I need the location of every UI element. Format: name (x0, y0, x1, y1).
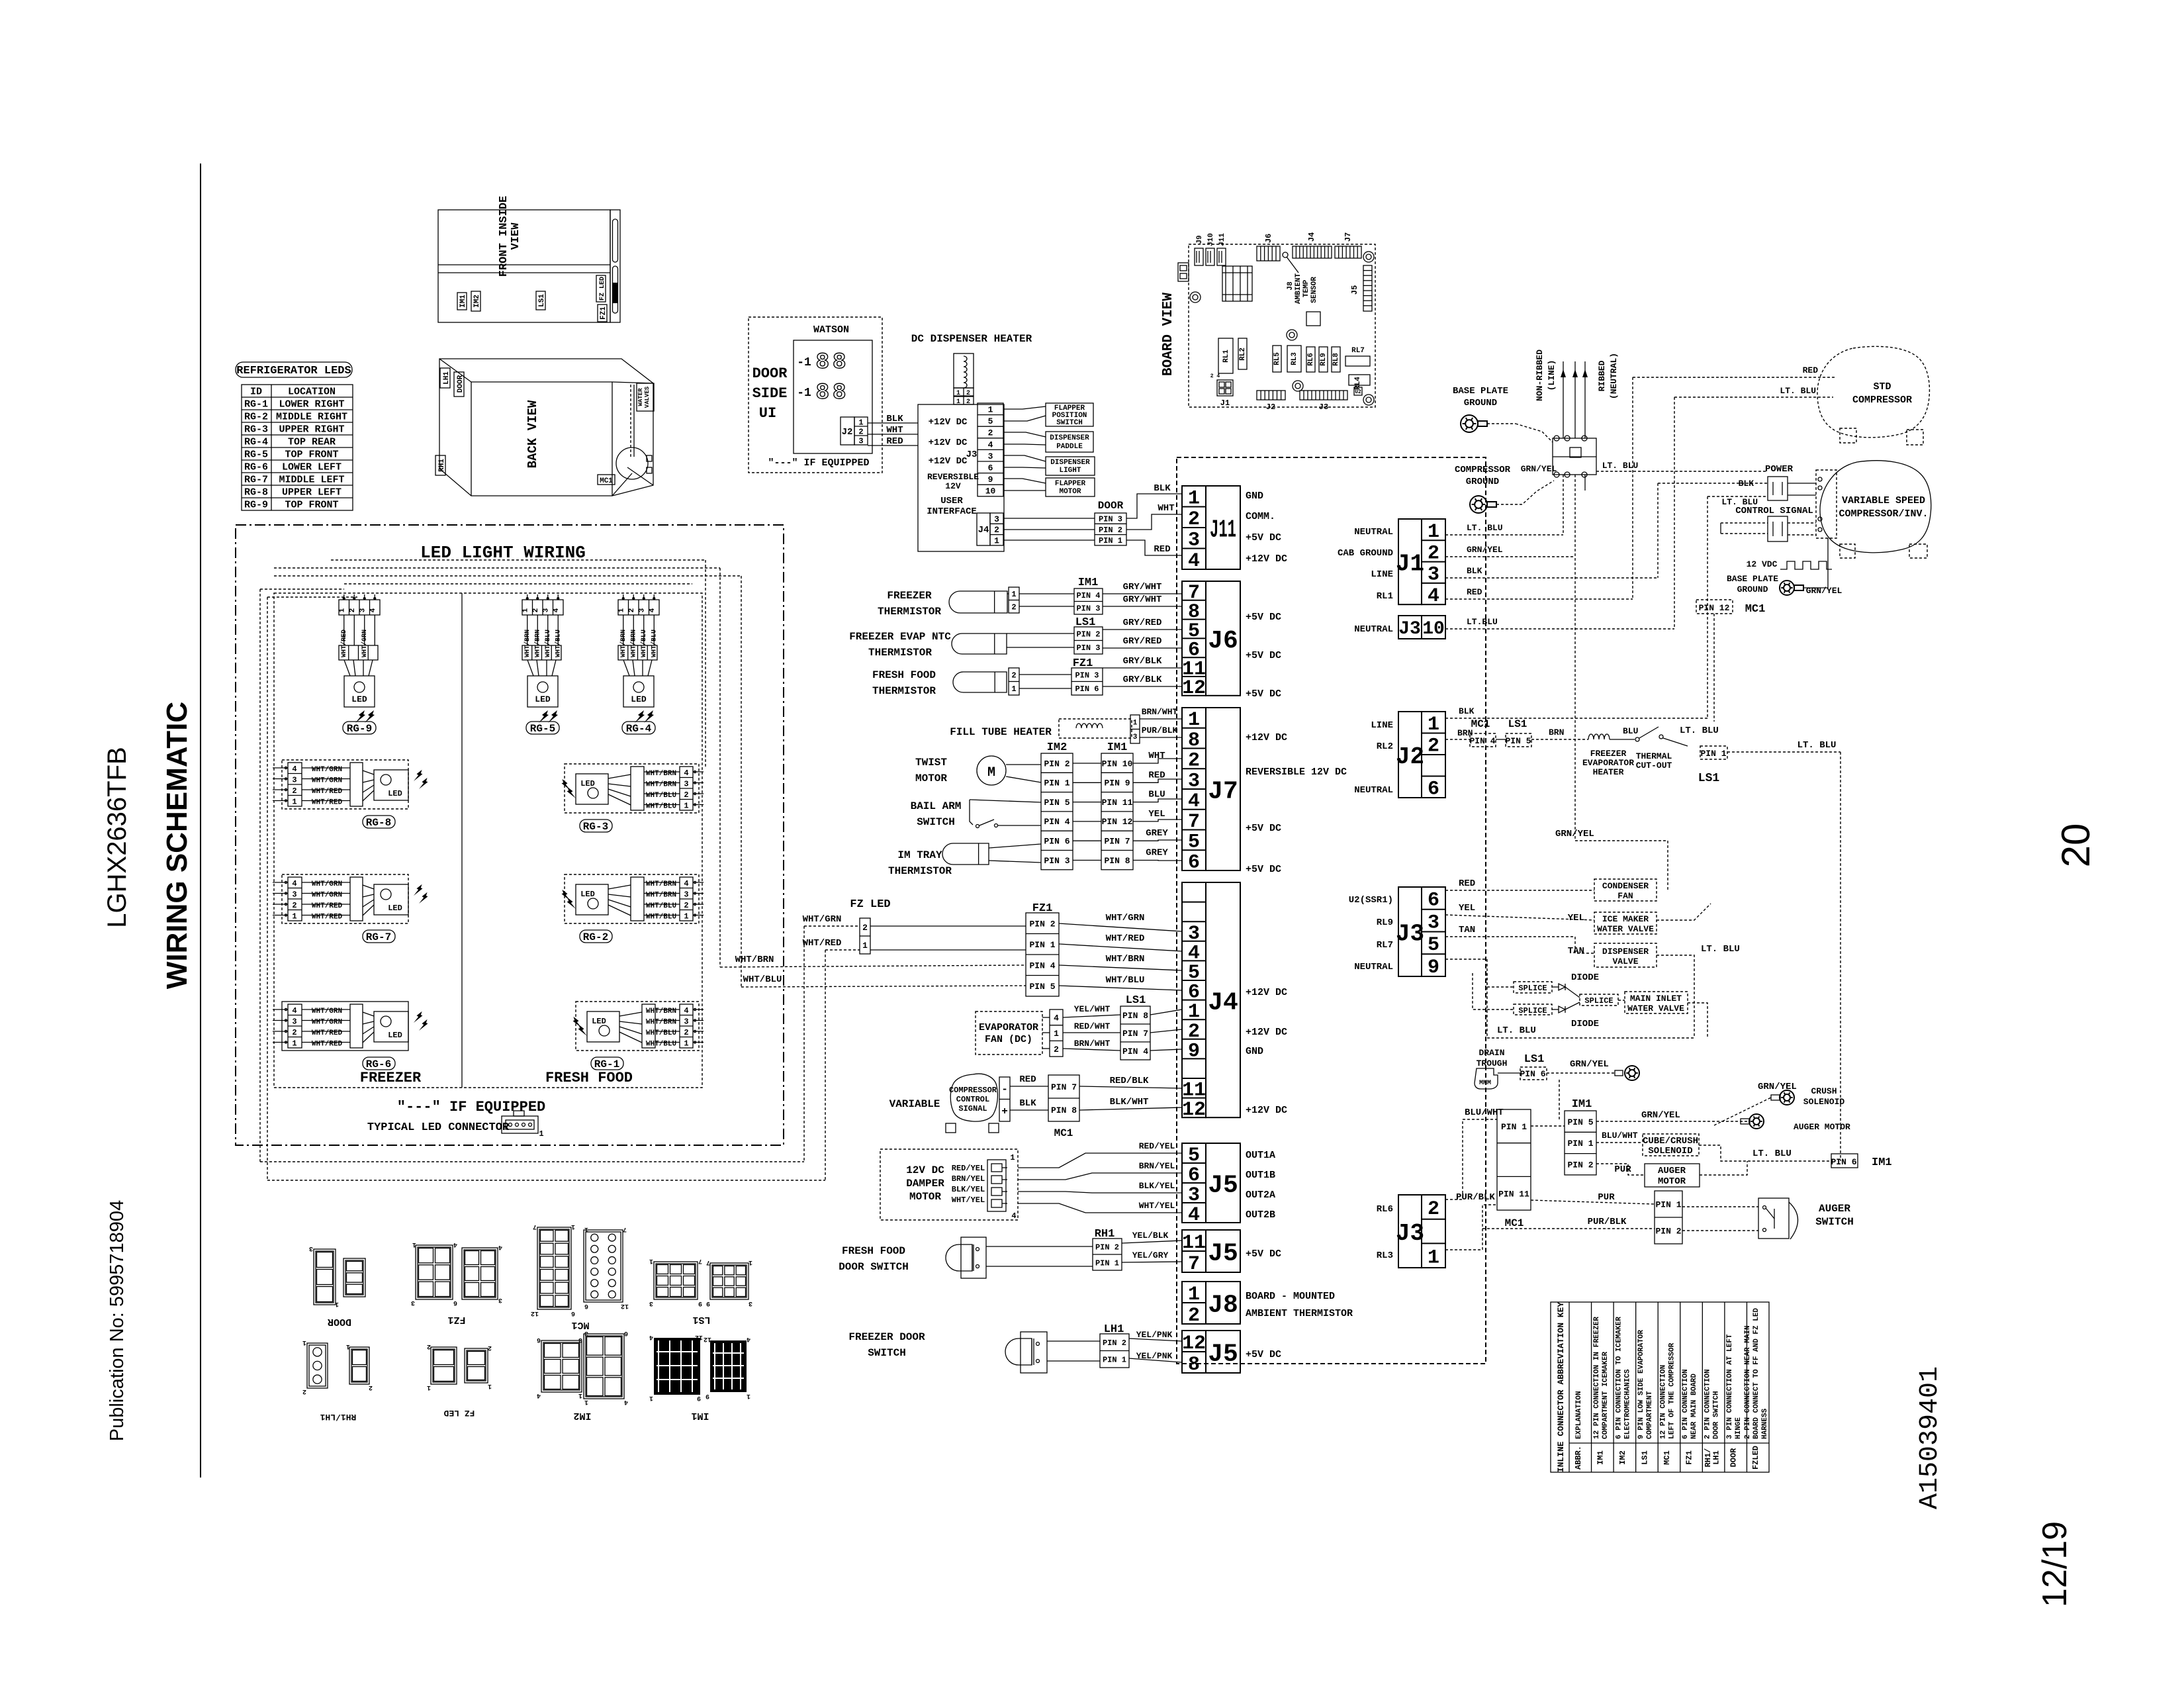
svg-text:8: 8 (1188, 1354, 1200, 1376)
PCB relay RL8 (1332, 347, 1340, 372)
svg-text:GRN/YEL: GRN/YEL (1758, 1082, 1797, 1092)
svg-text:PIN 3: PIN 3 (1044, 856, 1069, 866)
svg-text:YEL/BLK: YEL/BLK (1132, 1231, 1169, 1241)
svg-text:MOTOR: MOTOR (909, 1191, 941, 1203)
svg-text:TYPICAL LED CONNECTOR: TYPICAL LED CONNECTOR (367, 1121, 510, 1134)
svg-text:GRN/YEL: GRN/YEL (1806, 586, 1843, 596)
svg-text:4: 4 (1188, 550, 1200, 573)
PCB connector J2 (1257, 391, 1285, 400)
svg-text:PIN 11: PIN 11 (1498, 1189, 1529, 1199)
svg-text:RG-4: RG-4 (244, 437, 268, 448)
svg-text:-1: -1 (797, 387, 811, 400)
dispenser heater resistor (954, 353, 974, 388)
svg-text:GRN/YEL: GRN/YEL (1570, 1059, 1609, 1070)
svg-text:6: 6 (571, 1309, 575, 1317)
svg-text:FREEZER EVAP NTC: FREEZER EVAP NTC (849, 631, 951, 643)
label IM2 (471, 291, 480, 311)
svg-text:3: 3 (994, 514, 999, 524)
svg-text:DIODE: DIODE (1571, 1019, 1599, 1029)
svg-text:RL3: RL3 (1291, 352, 1298, 365)
svg-text:TOP FRONT: TOP FRONT (285, 449, 338, 461)
svg-text:WHT/YEL: WHT/YEL (952, 1196, 985, 1205)
svg-text:DC DISPENSER HEATER: DC DISPENSER HEATER (911, 333, 1032, 345)
svg-text:6: 6 (537, 1336, 541, 1343)
label FZ LED (596, 275, 606, 302)
svg-text:RG-4: RG-4 (626, 723, 652, 735)
connector J2 (1398, 712, 1422, 798)
PCB ambient temp sensor (1283, 252, 1288, 258)
LED module RG-9 LED box (344, 660, 350, 676)
label RH1 (435, 455, 445, 475)
connector J4 user interface (977, 513, 990, 545)
PCB edge connector (1178, 263, 1189, 281)
svg-text:DOOR: DOOR (752, 365, 788, 382)
label WATER VALVES (rotated) (637, 383, 654, 411)
svg-text:WHT/RED: WHT/RED (803, 938, 842, 949)
svg-text:MAIN INLET: MAIN INLET (1630, 994, 1682, 1004)
svg-text:RL8: RL8 (1332, 353, 1340, 366)
svg-text:SOLENOID: SOLENOID (1648, 1146, 1692, 1156)
svg-text:MIDDLE RIGHT: MIDDLE RIGHT (276, 412, 347, 423)
svg-text:5: 5 (988, 416, 993, 426)
svg-text:BOARD - MOUNTED: BOARD - MOUNTED (1246, 1291, 1335, 1302)
wires LED box to FZ1 (720, 965, 1026, 967)
label FZ1 (598, 305, 607, 322)
svg-text:PIN 5: PIN 5 (1505, 736, 1531, 746)
svg-text:OUT2A: OUT2A (1246, 1190, 1275, 1201)
svg-text:IM2: IM2 (573, 1410, 591, 1421)
LED wiring bottom return wires (260, 1161, 804, 1162)
svg-text:WATSON: WATSON (813, 324, 849, 336)
svg-text:J2: J2 (1266, 402, 1275, 412)
svg-text:HINGE: HINGE (1735, 1417, 1743, 1439)
svg-text:PIN 2: PIN 2 (1099, 526, 1122, 535)
svg-text:12 PIN CONNECTION IN FREEZER: 12 PIN CONNECTION IN FREEZER (1593, 1317, 1601, 1439)
svg-text:WHT/BLU: WHT/BLU (1106, 975, 1145, 986)
svg-text:UPPER LEFT: UPPER LEFT (282, 487, 341, 498)
svg-text:WHT/RED: WHT/RED (1106, 933, 1145, 944)
svg-text:TROUGH: TROUGH (1477, 1058, 1508, 1068)
svg-text:BLK/YEL: BLK/YEL (1139, 1181, 1175, 1191)
svg-text:12 VDC: 12 VDC (1747, 559, 1778, 569)
svg-text:9: 9 (705, 1392, 709, 1399)
svg-text:THERMAL: THERMAL (1636, 751, 1672, 761)
PCB connector J3 (1300, 391, 1347, 400)
svg-text:20: 20 (2054, 823, 2098, 868)
svg-text:J5: J5 (1208, 1240, 1238, 1268)
svg-text:3: 3 (639, 608, 647, 612)
svg-text:RH1/LH1: RH1/LH1 (320, 1412, 356, 1422)
svg-text:J8: J8 (1287, 281, 1295, 291)
svg-text:AUGER: AUGER (1819, 1203, 1850, 1215)
svg-text:PIN 1: PIN 1 (1044, 778, 1069, 788)
svg-text:DOOR SWITCH: DOOR SWITCH (1713, 1391, 1721, 1439)
svg-text:WHT/RED: WHT/RED (312, 902, 343, 910)
svg-text:PIN 2: PIN 2 (1044, 759, 1069, 769)
svg-text:NEAR MAIN BOARD: NEAR MAIN BOARD (1690, 1374, 1698, 1439)
wire IM1 pin1 to cube/crush solenoid (1596, 1142, 1643, 1143)
svg-text:MOTOR: MOTOR (1059, 488, 1081, 496)
svg-text:RED: RED (1148, 770, 1165, 780)
svg-text:BASE PLATE: BASE PLATE (1727, 574, 1778, 584)
svg-text:GRY/BLK: GRY/BLK (1123, 675, 1162, 685)
svg-text:7: 7 (533, 1223, 537, 1230)
svg-text:LGHX2636TFB: LGHX2636TFB (103, 747, 132, 927)
connector drawing FZ LED (431, 1347, 457, 1384)
svg-text:1: 1 (292, 798, 296, 807)
svg-text:RL1: RL1 (1377, 591, 1393, 602)
connector J4 (1182, 882, 1206, 1117)
svg-text:RG-5: RG-5 (530, 723, 555, 735)
12V DC damper motor (880, 1149, 1018, 1220)
svg-text:DIODE: DIODE (1571, 972, 1599, 983)
svg-text:1: 1 (427, 1383, 431, 1391)
svg-text:UPPER RIGHT: UPPER RIGHT (279, 424, 344, 436)
svg-text:"---" IF EQUIPPED: "---" IF EQUIPPED (397, 1099, 545, 1115)
svg-text:2: 2 (988, 428, 993, 438)
svg-text:CONTROL: CONTROL (956, 1095, 989, 1104)
connector drawing RH1/LH1 (307, 1343, 328, 1388)
wires J3 to dispenser parts (1003, 406, 1046, 409)
svg-text:2 4: 2 4 (1210, 373, 1220, 379)
main control board outline (1177, 457, 1486, 1364)
svg-text:FZ1: FZ1 (447, 1314, 465, 1325)
svg-text:PIN 7: PIN 7 (1122, 1029, 1148, 1039)
svg-text:LED: LED (535, 694, 551, 704)
svg-text:+5V DC: +5V DC (1246, 864, 1281, 875)
svg-text:FREEZER: FREEZER (887, 590, 932, 602)
LED module RG-3 block (565, 764, 699, 813)
auger switch (1682, 1206, 1758, 1207)
svg-text:MC1: MC1 (1054, 1127, 1073, 1139)
LED module RG-1 block (576, 1002, 699, 1051)
ice maker water valve (1594, 912, 1657, 934)
variable speed compressor blob (1820, 461, 1931, 553)
svg-text:BLU/WHT: BLU/WHT (1602, 1131, 1638, 1141)
svg-text:J3: J3 (1319, 402, 1328, 412)
wires MC1 to J4 (1079, 1086, 1182, 1088)
svg-text:PUR/BLK: PUR/BLK (1456, 1192, 1495, 1203)
svg-text:4: 4 (988, 440, 993, 449)
svg-text:RG-2: RG-2 (583, 931, 608, 943)
svg-text:2: 2 (369, 1383, 373, 1391)
svg-text:+5V DC: +5V DC (1246, 532, 1281, 543)
svg-text:PIN 5: PIN 5 (1044, 798, 1069, 808)
svg-text:REVERSIBLE 12V DC: REVERSIBLE 12V DC (1246, 767, 1347, 778)
svg-text:PIN 3: PIN 3 (1099, 514, 1122, 524)
svg-text:DISPENSER: DISPENSER (1050, 434, 1089, 442)
svg-text:3: 3 (749, 1299, 752, 1307)
svg-text:BAIL ARM: BAIL ARM (911, 800, 962, 812)
svg-text:IM2: IM2 (1618, 1450, 1627, 1465)
svg-text:WHT/GRN: WHT/GRN (312, 1019, 342, 1027)
svg-text:J3: J3 (966, 449, 978, 460)
heater connector cells (954, 388, 974, 396)
svg-text:NEUTRAL: NEUTRAL (1354, 785, 1393, 796)
svg-text:DOOR: DOOR (328, 1316, 351, 1327)
svg-text:LT. BLU: LT. BLU (1467, 523, 1503, 533)
wire junction to power plug (1596, 471, 1768, 472)
svg-text:2: 2 (1188, 1305, 1200, 1327)
svg-text:THERMISTOR: THERMISTOR (888, 865, 952, 877)
svg-text:9: 9 (1428, 957, 1439, 979)
svg-text:J11: J11 (1210, 516, 1236, 545)
svg-text:RED: RED (1154, 544, 1170, 555)
svg-text:PIN 12: PIN 12 (1102, 817, 1133, 827)
svg-text:4: 4 (498, 1243, 502, 1250)
variable speed inverter connector (1816, 470, 1837, 538)
LED module RG-4 designator (622, 722, 655, 734)
svg-text:MC1: MC1 (1662, 1450, 1672, 1465)
svg-text:VIEW: VIEW (510, 222, 522, 250)
svg-text:SWITCH: SWITCH (868, 1347, 906, 1359)
LED module RG-6 designator (363, 1057, 395, 1070)
svg-text:RL6: RL6 (1307, 353, 1315, 366)
fridge back view box (439, 359, 653, 496)
svg-text:J6: J6 (1208, 627, 1238, 655)
svg-text:5: 5 (1428, 934, 1439, 957)
svg-text:BOARD CONNECT TO FF AND FZ LED: BOARD CONNECT TO FF AND FZ LED (1752, 1308, 1760, 1439)
svg-text:AUGER MOTOR: AUGER MOTOR (1794, 1122, 1850, 1132)
PCB connector J4 (1293, 246, 1332, 258)
svg-text:PIN 1: PIN 1 (1567, 1139, 1593, 1149)
svg-text:WHT/RED: WHT/RED (312, 1029, 343, 1037)
svg-text:WHT/GRN: WHT/GRN (312, 1008, 342, 1015)
svg-text:FAN: FAN (1617, 891, 1633, 901)
svg-text:MMM: MMM (1479, 1080, 1491, 1087)
svg-text:1: 1 (539, 1129, 543, 1139)
svg-text:PIN 1: PIN 1 (1099, 536, 1122, 545)
label IM1 (457, 293, 467, 310)
svg-text:+: + (1001, 1105, 1008, 1117)
LED module RG-2 block (565, 874, 699, 923)
svg-text:J1: J1 (1396, 551, 1424, 578)
svg-text:9 PIN LOW SIDE EVAPORATOR: 9 PIN LOW SIDE EVAPORATOR (1637, 1330, 1645, 1439)
svg-text:3: 3 (578, 1336, 582, 1343)
svg-text:J2: J2 (842, 427, 853, 438)
svg-text:6: 6 (453, 1299, 457, 1306)
svg-text:WATER VALVE: WATER VALVE (1597, 924, 1654, 934)
right side vertical trunks (1632, 377, 1633, 599)
svg-text:RG-6: RG-6 (366, 1058, 391, 1070)
svg-text:U2(SSR1): U2(SSR1) (1349, 895, 1393, 906)
svg-text:EXPLANATION: EXPLANATION (1575, 1391, 1583, 1439)
svg-text:2 PIN CONNECTION NEAR MAIN: 2 PIN CONNECTION NEAR MAIN (1744, 1325, 1752, 1439)
svg-text:WIRING SCHEMATIC: WIRING SCHEMATIC (161, 702, 193, 989)
svg-text:LOWER RIGHT: LOWER RIGHT (279, 399, 344, 410)
svg-text:+12V DC: +12V DC (1246, 553, 1287, 565)
svg-text:3: 3 (1428, 912, 1439, 934)
wires to STD compressor (1633, 377, 1835, 378)
svg-text:+5V DC: +5V DC (1246, 688, 1281, 700)
connector drawing LS1 (654, 1262, 698, 1299)
svg-text:WHT/BLU: WHT/BLU (646, 803, 676, 811)
wires LH1 to J5 (1129, 1338, 1182, 1341)
svg-text:PIN 2: PIN 2 (1029, 919, 1055, 929)
svg-text:IM1: IM1 (1596, 1450, 1605, 1465)
compressor blob on back view (616, 447, 648, 479)
svg-text:FRESH FOOD: FRESH FOOD (545, 1070, 633, 1086)
svg-text:IM1: IM1 (691, 1410, 709, 1421)
svg-text:FZ LED: FZ LED (599, 277, 606, 301)
connector drawing IM1 (dense) (654, 1338, 700, 1395)
svg-text:SPLICE: SPLICE (1518, 984, 1547, 993)
svg-text:GRN/YEL: GRN/YEL (1641, 1110, 1680, 1121)
svg-text:DOOR: DOOR (1098, 500, 1124, 512)
condenser fan (1594, 879, 1657, 901)
main inlet water valve (1625, 992, 1688, 1013)
MC1 pin block (1048, 1075, 1079, 1121)
svg-text:BRN: BRN (1549, 727, 1564, 737)
svg-text:3: 3 (584, 1329, 588, 1336)
inline connector abbreviation key table (1551, 1302, 1769, 1472)
svg-text:WHT/RED: WHT/RED (312, 914, 343, 921)
svg-text:LS1: LS1 (692, 1314, 710, 1325)
svg-text:2: 2 (292, 1028, 296, 1037)
svg-text:4: 4 (453, 1241, 457, 1248)
LED module RG-2 designator (580, 930, 612, 943)
svg-text:LT.BLU: LT.BLU (1467, 617, 1498, 627)
svg-text:4: 4 (292, 765, 296, 774)
svg-text:RED: RED (886, 436, 903, 447)
svg-text:J7: J7 (1343, 232, 1353, 242)
flapper motor (1046, 478, 1095, 496)
svg-text:PIN 8: PIN 8 (1104, 856, 1130, 866)
PCB relay RL7 (1345, 356, 1370, 366)
wires freezer thermistor to J6 (1103, 593, 1182, 594)
svg-text:3: 3 (359, 608, 367, 612)
LED module RG-1 designator (591, 1057, 623, 1070)
svg-text:BOARD VIEW: BOARD VIEW (1161, 293, 1176, 376)
svg-text:VARIABLE: VARIABLE (889, 1098, 940, 1110)
PIN 6 IM1 box (1831, 1154, 1858, 1168)
label DOOR (454, 372, 464, 397)
connector drawing IM2 (541, 1340, 582, 1392)
svg-text:3: 3 (292, 776, 296, 785)
connector J3 quad (1398, 887, 1422, 976)
svg-text:1: 1 (649, 1394, 653, 1401)
svg-text:LT. BLU: LT. BLU (1780, 386, 1816, 396)
svg-text:(LINE): (LINE) (1547, 360, 1557, 391)
svg-text:6: 6 (988, 463, 993, 473)
svg-text:IM1: IM1 (1872, 1156, 1892, 1169)
svg-text:IM1: IM1 (1107, 741, 1128, 754)
svg-text:RG-6: RG-6 (244, 462, 268, 473)
svg-text:2: 2 (488, 1344, 492, 1351)
svg-text:1: 1 (858, 418, 863, 427)
svg-text:3: 3 (684, 780, 688, 789)
svg-text:J4: J4 (1307, 232, 1316, 242)
svg-text:RL2: RL2 (1239, 348, 1247, 361)
svg-text:COMPARTMENT: COMPARTMENT (1646, 1391, 1654, 1439)
wires FZ1 to J4 (1059, 923, 1182, 931)
svg-text:RG-8: RG-8 (244, 487, 268, 498)
svg-text:IM1: IM1 (1572, 1098, 1592, 1111)
svg-text:1: 1 (649, 1257, 653, 1264)
svg-text:RL7: RL7 (1351, 347, 1365, 355)
svg-text:2: 2 (1011, 671, 1016, 680)
svg-text:+5V DC: +5V DC (1246, 823, 1281, 834)
wires MC1 to IM1 column (1531, 1125, 1565, 1127)
svg-text:PIN 5: PIN 5 (1567, 1117, 1593, 1127)
svg-text:1: 1 (1428, 1247, 1439, 1270)
svg-text:WHT/RED: WHT/RED (312, 799, 343, 807)
svg-text:TOP FRONT: TOP FRONT (285, 500, 338, 511)
svg-text:SWITCH: SWITCH (917, 816, 955, 828)
svg-text:IM1: IM1 (459, 295, 467, 308)
svg-text:LEFT OF THE COMPRESSOR: LEFT OF THE COMPRESSOR (1668, 1342, 1676, 1439)
svg-text:3: 3 (684, 1017, 688, 1027)
svg-text:HEATER: HEATER (1593, 767, 1624, 777)
svg-text:COMPRESSOR: COMPRESSOR (1455, 465, 1511, 475)
svg-text:OUT1B: OUT1B (1246, 1170, 1275, 1181)
svg-text:12: 12 (531, 1309, 539, 1317)
svg-text:BRN/WHT: BRN/WHT (1142, 707, 1178, 717)
svg-text:J1: J1 (1220, 399, 1230, 408)
svg-text:1: 1 (522, 608, 530, 612)
svg-text:NEUTRAL: NEUTRAL (1354, 624, 1393, 635)
svg-text:WHT/BLU: WHT/BLU (646, 902, 676, 910)
svg-text:4: 4 (684, 1006, 688, 1015)
svg-text:BACK VIEW: BACK VIEW (525, 400, 540, 468)
svg-text:FLAPPER: FLAPPER (1055, 480, 1086, 488)
svg-text:YEL/GRY: YEL/GRY (1132, 1250, 1169, 1260)
svg-text:J5: J5 (1208, 1340, 1238, 1369)
svg-text:COMPRESSOR: COMPRESSOR (1852, 395, 1912, 406)
svg-text:LH1: LH1 (1711, 1450, 1721, 1465)
svg-text:PIN 2: PIN 2 (1655, 1227, 1681, 1237)
svg-text:PIN 8: PIN 8 (1122, 1011, 1148, 1021)
svg-text:WHT/RED: WHT/RED (312, 788, 343, 796)
LED LIGHT WIRING outer boundary (236, 525, 784, 1145)
svg-text:1: 1 (956, 390, 960, 397)
LED module RG-9 lower connector (339, 645, 378, 660)
svg-text:RG-5: RG-5 (244, 449, 268, 461)
wires evaporator fan to LS1 (1063, 1015, 1120, 1017)
PCB relay RL2 (1238, 338, 1247, 369)
svg-text:+12V DC: +12V DC (929, 417, 968, 428)
svg-text:LED: LED (388, 789, 402, 798)
svg-text:12: 12 (1182, 1099, 1206, 1121)
svg-text:THERMISTOR: THERMISTOR (872, 685, 936, 697)
svg-text:BASE PLATE: BASE PLATE (1453, 386, 1508, 397)
svg-text:1: 1 (584, 1225, 588, 1233)
svg-text:1: 1 (684, 912, 688, 921)
svg-text:WHT/YEL: WHT/YEL (1139, 1201, 1175, 1211)
svg-text:FRESH FOOD: FRESH FOOD (872, 669, 936, 681)
svg-text:"---" IF EQUIPPED: "---" IF EQUIPPED (768, 457, 869, 469)
svg-text:INTERFACE: INTERFACE (927, 506, 977, 517)
svg-text:RL3: RL3 (1377, 1250, 1393, 1261)
svg-text:SIDE: SIDE (752, 385, 788, 402)
svg-text:PUR: PUR (1598, 1192, 1615, 1203)
svg-text:TAN: TAN (1459, 925, 1475, 935)
svg-text:1: 1 (994, 536, 999, 545)
svg-text:LINE: LINE (1371, 720, 1393, 731)
PCB connectors J9 J10 J11 (1195, 248, 1203, 265)
svg-text:1: 1 (1011, 590, 1016, 599)
PCB connector J7 (1335, 246, 1361, 258)
svg-text:3: 3 (292, 890, 296, 900)
svg-text:WHT/BRN: WHT/BRN (735, 955, 774, 965)
refrigerator LEDs table (242, 385, 353, 510)
svg-text:J3: J3 (1396, 920, 1424, 947)
svg-text:WHT/BRN: WHT/BRN (646, 880, 676, 888)
svg-text:LT. BLU: LT. BLU (1752, 1149, 1792, 1159)
wires J3 pair to MC1 column (1445, 1119, 1497, 1199)
svg-text:FREEZER: FREEZER (1590, 749, 1627, 759)
wires damper motor to J5 (1018, 1153, 1182, 1168)
